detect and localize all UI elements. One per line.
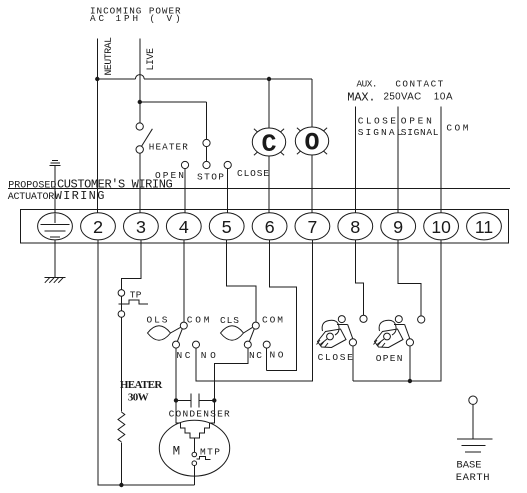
terminal 11 <box>467 213 502 240</box>
terminal 2 <box>81 213 116 240</box>
wire: terminal 6 jog down to CLS NO <box>267 240 297 371</box>
svg-text:LIVE: LIVE <box>145 48 156 71</box>
limit switch CLS: blade <box>249 329 254 342</box>
terminal circle: base earth stud <box>469 396 477 404</box>
wire: live incoming vertical to heater switch <box>139 39 141 123</box>
aux switch CLOSE: lever line <box>337 323 347 325</box>
wire: terminal 5 jog to CLS com <box>227 240 256 322</box>
aux switch CLOSE: moving terminal <box>349 339 356 346</box>
wire: winding point to MTP <box>193 443 195 452</box>
svg-text:HEATER: HEATER <box>149 141 188 152</box>
terminal circle: stop upper <box>203 139 210 146</box>
svg-text:ACTUATOR: ACTUATOR <box>8 192 55 203</box>
limit switch OLS: cam link <box>171 327 181 333</box>
svg-text:10: 10 <box>431 217 451 237</box>
svg-text:SIGNAL: SIGNAL <box>358 127 403 138</box>
svg-text:COM: COM <box>187 314 210 325</box>
wire: terminal 3 jog to TP <box>121 240 140 290</box>
wire: open signal drop to terminal 9 <box>397 107 399 213</box>
wire: aux bus and terminal 10 drop <box>353 240 441 381</box>
svg-text:COM: COM <box>262 314 283 325</box>
wire: open pushbutton to terminal 4 <box>184 169 186 213</box>
svg-text:6: 6 <box>264 219 275 239</box>
svg-text:3: 3 <box>135 219 146 239</box>
svg-text:30W: 30W <box>128 391 149 403</box>
junction dot: open aux at bus <box>408 379 412 383</box>
lamp O: circle with rays <box>295 127 328 158</box>
svg-text:250VAC: 250VAC <box>384 91 422 102</box>
svg-text:AUX.: AUX. <box>357 79 378 90</box>
svg-text:STOP: STOP <box>197 172 224 183</box>
terminal 1 (earth) <box>38 213 73 240</box>
svg-text:HEATER: HEATER <box>120 379 163 391</box>
svg-text:OPEN: OPEN <box>376 353 403 364</box>
terminal 10 <box>424 213 459 240</box>
svg-text:TP: TP <box>130 289 142 300</box>
svg-text:EARTH: EARTH <box>456 472 490 484</box>
svg-text:OLS: OLS <box>147 314 168 325</box>
terminal circle: MTP upper <box>192 452 197 457</box>
aux switch OPEN: cam glyph <box>374 320 404 347</box>
svg-text:CLOSE: CLOSE <box>237 168 269 179</box>
wire: earth to terminal 1 <box>54 166 56 213</box>
limit switch CLS: cam <box>221 326 244 340</box>
wire: close signal drop to terminal 8 <box>354 107 356 213</box>
lamp C: circle with rays <box>252 128 285 159</box>
svg-text:CLOSE: CLOSE <box>318 352 353 363</box>
limit switch CLS: NO terminal <box>263 341 270 348</box>
terminal circle: MTP lower <box>192 461 197 466</box>
wire: neutral bus horizontal with hop over live <box>97 78 312 80</box>
wire: open aux to bottom aux bus <box>409 346 411 381</box>
junction dot: condenser left <box>174 398 178 402</box>
svg-text:CONDENSER: CONDENSER <box>169 409 230 420</box>
wire: stop link <box>206 147 208 162</box>
wire: neutral incoming vertical to terminal 2 <box>96 39 98 214</box>
wire: O lamp drop from neutral bus end <box>311 79 313 127</box>
motor winding right (staircase) <box>194 400 214 443</box>
aux switch OPEN: lever line <box>394 323 404 325</box>
svg-text:PROPOSED: PROPOSED <box>8 181 56 192</box>
wire: TP link <box>120 296 122 311</box>
svg-text:NEUTRAL: NEUTRAL <box>103 37 114 76</box>
wire: MTP to bottom bus <box>193 466 195 486</box>
limit switch OLS: cam <box>148 326 171 340</box>
junction dot: heater at bottom bus <box>119 483 123 487</box>
svg-text:NC: NC <box>177 350 191 361</box>
wire: stop branch from live bus <box>206 102 208 139</box>
thermal contact symbol of MTP <box>197 456 211 459</box>
svg-text:M: M <box>173 444 181 458</box>
wire: OLS NO right and up to terminal 7 <box>196 240 312 381</box>
switch: heater switch bottom terminal <box>136 146 143 153</box>
svg-text:CLOSE: CLOSE <box>358 115 397 126</box>
wire: com drop to terminal 10 <box>440 107 442 213</box>
aux switch OPEN: fixed terminal <box>418 316 425 323</box>
svg-text:10A: 10A <box>434 91 453 102</box>
motor: circle <box>159 420 229 476</box>
limit switch CLS: cam link <box>244 327 253 333</box>
wire: terminal 4 to OLS com <box>183 240 185 322</box>
svg-text:9: 9 <box>393 219 404 239</box>
wire: close aux to bottom aux bus <box>352 346 354 381</box>
wire: terminal 8 jog to close aux contact <box>355 240 363 315</box>
limit switch OLS: NC terminal <box>173 341 180 348</box>
resistor: heater element zigzag <box>118 412 125 442</box>
wire: C lamp to terminal 6 <box>268 156 270 213</box>
wire: terminal 9 jog to open aux contact <box>398 240 421 316</box>
wire: live bus horizontal <box>140 101 207 103</box>
wire: CLS NC left and down to condenser right <box>214 348 248 400</box>
wire: OLS NC to condenser left <box>175 348 177 400</box>
svg-text:11: 11 <box>475 217 493 237</box>
chassis ground symbol <box>45 277 66 282</box>
terminal 7 <box>295 213 330 240</box>
terminal circle: close pushbutton <box>224 161 231 168</box>
svg-text:CONTACT: CONTACT <box>395 79 443 90</box>
motor winding left (staircase) <box>176 400 194 443</box>
wire: CLS NO stub <box>266 348 268 370</box>
svg-text:5: 5 <box>221 219 232 239</box>
terminal 4 <box>166 213 201 240</box>
wire: heater switch to terminal 3 <box>139 153 141 213</box>
limit switch CLS: NC terminal <box>244 341 251 348</box>
earth symbol above terminal 1 <box>49 161 60 166</box>
junction dot: condenser right <box>212 398 216 402</box>
earth symbol: base earth <box>457 439 492 452</box>
svg-text:SIGNAL: SIGNAL <box>401 127 439 138</box>
terminal 9 <box>381 213 416 240</box>
aux switch CLOSE: fixed terminal <box>360 315 367 322</box>
label: INCOMING POWER <box>90 5 181 24</box>
aux switch OPEN: moving terminal <box>406 339 413 346</box>
svg-text:2: 2 <box>93 219 104 239</box>
wire: O lamp to terminal 7 <box>311 155 313 213</box>
svg-text:BASE: BASE <box>456 459 481 471</box>
junction dot: live bus at live wire <box>138 100 142 104</box>
terminal circle: open pushbutton <box>181 161 188 168</box>
switch: heater switch top terminal <box>136 123 143 130</box>
terminal 5 <box>209 213 244 240</box>
wire: close pushbutton to terminal 5 <box>227 169 229 213</box>
svg-text:7: 7 <box>307 219 318 239</box>
terminal circle: stop lower <box>203 161 210 168</box>
aux switch OPEN: roller <box>395 316 402 323</box>
wire: heater to bottom bus <box>120 442 122 485</box>
wire: terminal 1 to chassis ground <box>54 240 56 278</box>
terminal 3 <box>123 213 158 240</box>
label: AUX. CONTACT <box>347 79 468 138</box>
limit switch OLS: NO terminal <box>193 341 200 348</box>
svg-text:C: C <box>261 130 276 159</box>
limit switch OLS: com terminal <box>180 322 187 329</box>
wire: TP to heater resistor <box>120 317 122 411</box>
svg-text:MTP: MTP <box>200 446 220 457</box>
label: PROPOSED CUSTOMER'S WIRING <box>8 178 173 203</box>
svg-text:NC: NC <box>249 350 262 361</box>
wire: terminal 2 down and bottom bus <box>98 240 194 485</box>
svg-text:AC 1PH ( V): AC 1PH ( V) <box>90 13 181 24</box>
terminal circle: TP upper <box>118 290 125 297</box>
terminal 6 <box>252 213 287 240</box>
junction dot: neutral bus at C lamp tap <box>267 77 271 81</box>
capacitor: condenser <box>176 394 214 408</box>
svg-text:8: 8 <box>350 219 361 239</box>
switch: heater switch blade <box>142 129 153 146</box>
svg-text:CLS: CLS <box>220 315 239 326</box>
junction dot: neutral bus at neutral wire <box>95 77 99 81</box>
terminal strip rectangle <box>21 210 509 244</box>
terminal 8 <box>338 213 373 240</box>
thermal contact symbol of TP <box>119 300 148 304</box>
svg-text:4: 4 <box>178 219 189 239</box>
limit switch CLS: com terminal <box>252 322 259 329</box>
svg-text:COM: COM <box>446 123 468 134</box>
svg-text:OPEN: OPEN <box>401 115 432 126</box>
wire: base earth stud to ground <box>472 404 474 439</box>
svg-text:NO: NO <box>201 350 216 361</box>
aux switch CLOSE: cam glyph <box>317 320 347 347</box>
aux switch CLOSE: blade <box>348 324 353 339</box>
boundary line: customer / actuator wiring <box>8 187 510 189</box>
svg-text:NO: NO <box>270 350 284 361</box>
wire: C lamp drop from neutral bus <box>268 79 270 128</box>
svg-text:O: O <box>304 129 319 158</box>
aux switch OPEN: blade <box>405 324 410 339</box>
terminal circle: TP lower <box>118 311 125 318</box>
aux switch CLOSE: roller <box>338 316 345 323</box>
svg-text:MAX.: MAX. <box>347 90 375 104</box>
limit switch OLS: blade <box>177 329 182 342</box>
